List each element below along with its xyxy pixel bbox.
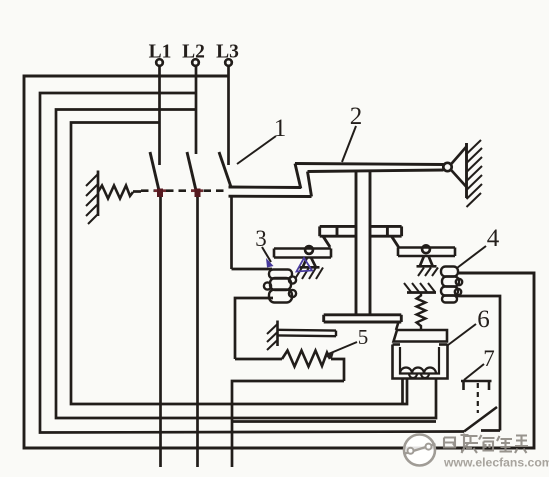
pivot hatch lever 4 <box>418 268 438 277</box>
watermark text main <box>444 434 528 454</box>
wire pole 1 lower drop to bottom edge <box>159 190 162 467</box>
pivot circle of bar 2 <box>443 163 451 171</box>
pivot circle lever 3 <box>305 246 313 254</box>
spring above dashpot piston <box>417 293 426 331</box>
lever bar 2 <box>295 164 444 172</box>
trip spring on wall <box>98 186 133 199</box>
svg-text:1: 1 <box>274 115 287 142</box>
contact 7 right prong <box>488 381 491 390</box>
pivot triangle lever 4 <box>417 256 437 266</box>
link spring to bar <box>133 190 141 193</box>
terminal circle L3 <box>225 59 232 66</box>
svg-text:2: 2 <box>350 103 363 130</box>
crossbar left arm <box>320 226 356 236</box>
wire coil 4 bottom to right drop <box>457 296 500 431</box>
contact 7 blade <box>464 407 497 432</box>
contact 7 dashed actuator link <box>477 383 479 413</box>
svg-text:www.elecfans.com: www.elecfans.com <box>443 456 549 470</box>
spring ceiling hatch over dashpot <box>407 291 436 294</box>
lower-left wall for rod <box>276 321 279 347</box>
armature lever 3 <box>274 249 331 258</box>
wire junction to contact 7 line <box>232 420 233 423</box>
column foot bar <box>324 315 402 322</box>
right wall hatch <box>467 140 483 207</box>
coil 3 electromagnet <box>264 270 296 303</box>
contact 7 fixed bar <box>461 380 492 383</box>
blue arrow of label 3 leader <box>266 258 274 268</box>
pivot circle lever 4 <box>422 245 430 253</box>
right latch hook <box>392 236 399 247</box>
leader line 3 <box>262 247 271 262</box>
junction mark pole1 linkage <box>154 189 166 192</box>
crossbar right arm <box>370 226 402 236</box>
switch blade pole 2 <box>187 152 198 197</box>
wire loop R1 from L3 around left/bottom/right to coil 4 top <box>24 76 534 448</box>
svg-text:6: 6 <box>477 306 490 333</box>
dashpot 6 inner pot <box>400 347 439 374</box>
wire loop R4 from L1 around left/bottom to dashpot 6 left pin <box>71 123 407 405</box>
terminal circle L2 <box>192 59 199 66</box>
lower-left wall hatch <box>267 324 278 350</box>
leader line 6 <box>448 324 476 345</box>
leader line 1 <box>237 136 276 164</box>
svg-text:3: 3 <box>255 226 267 251</box>
wire nub at bottom of right drop <box>481 429 500 432</box>
leader line 2 <box>342 126 356 162</box>
left latch hook <box>323 236 330 247</box>
wire L2 drop <box>195 67 198 154</box>
leader line 5 <box>326 342 357 355</box>
switch blade pole 1 <box>150 152 161 197</box>
coil 4 electromagnet <box>441 267 462 303</box>
wire lower return to load <box>232 381 344 467</box>
terminal circle L1 <box>156 59 163 66</box>
dashpot 6 coil bumps <box>400 368 436 379</box>
right wall <box>465 143 468 198</box>
spring 5 <box>282 351 330 367</box>
left wall for trip spring <box>97 171 100 217</box>
insulated bar of contact assembly 1 <box>229 164 312 197</box>
central column <box>356 172 370 315</box>
pivot hatch lever 3 <box>295 268 323 280</box>
leader line 7 <box>464 364 484 380</box>
armature lever 4 <box>398 248 455 257</box>
wire spring 5 right end down <box>331 359 344 381</box>
switch blade pole 3 <box>219 152 231 187</box>
wire to spring 5 left end <box>235 358 282 361</box>
wire L1 drop <box>158 67 161 165</box>
blue mark triangle at lever 3 pivot <box>297 258 313 272</box>
junction mark pole2 linkage <box>191 189 203 192</box>
wire pole 3 lower drop to coil 3 <box>230 196 233 269</box>
dashpot 6 outer pot <box>393 345 448 379</box>
wire pole 2 lower drop to bottom edge <box>196 190 199 467</box>
left wall hatch <box>86 174 98 224</box>
pivot triangle lever 3 <box>300 258 320 268</box>
wire loop R2 from L2 around left/bottom to contact 7 blade <box>40 93 464 433</box>
svg-text:7: 7 <box>483 346 495 371</box>
wire loop R3 from L2 around left/bottom to dashpot 6 right pin <box>56 110 436 419</box>
svg-text:5: 5 <box>358 325 369 349</box>
leader line 4 <box>457 246 486 268</box>
dashed linkage bar across poles <box>141 189 228 192</box>
contact 7 left prong <box>462 381 465 390</box>
wire coil 3 bottom return <box>235 298 273 359</box>
wire pole 3 to coil 3 top <box>232 268 273 271</box>
dashpot 6 piston stem <box>396 322 399 330</box>
wire L3 drop <box>227 67 230 165</box>
wire doubled segment under R3 bottom <box>233 420 436 423</box>
watermark logo <box>404 435 436 466</box>
svg-text:4: 4 <box>487 225 500 252</box>
pivot triangle on right wall <box>451 147 467 165</box>
dashpot 6 piston plate <box>394 330 448 342</box>
guide rod double line <box>278 330 337 336</box>
